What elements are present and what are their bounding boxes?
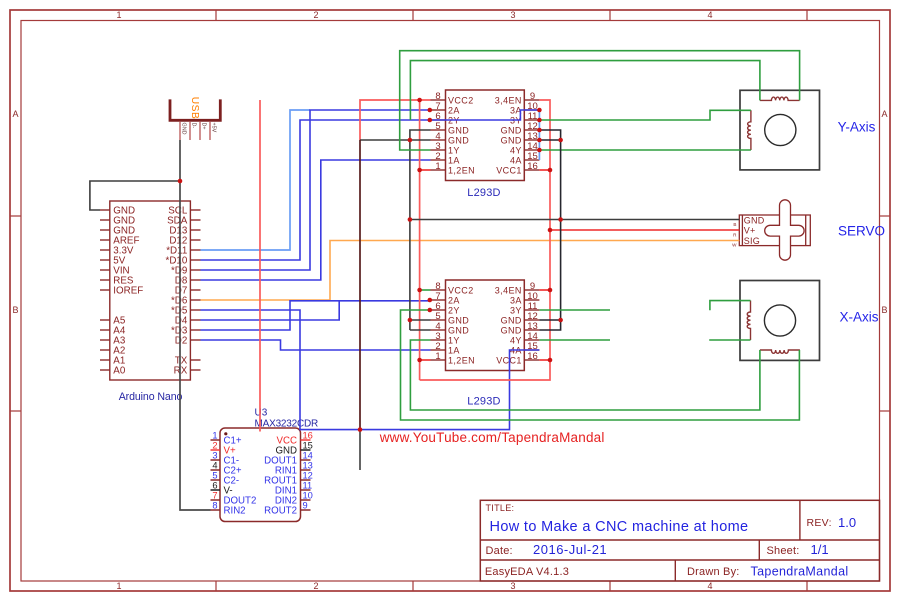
svg-text:1/1: 1/1 — [811, 542, 829, 557]
svg-text:Y-Axis: Y-Axis — [838, 120, 876, 135]
svg-text:B: B — [12, 305, 18, 315]
svg-text:GND: GND — [501, 125, 522, 135]
wire X-motor left coil bottom (green) — [709, 339, 750, 341]
svg-text:8: 8 — [212, 500, 217, 510]
svg-text:1.0: 1.0 — [838, 515, 856, 530]
svg-text:2Y: 2Y — [448, 305, 460, 315]
wire U1 VCC2 red — [360, 100, 431, 140]
svg-text:3Y: 3Y — [510, 305, 522, 315]
wire dark maroon net — [359, 140, 361, 430]
svg-text:W: W — [732, 243, 737, 248]
wire U2 2Y to X-motor coil (green) — [401, 310, 800, 420]
junction USB GND — [178, 179, 183, 184]
svg-text:1,2EN: 1,2EN — [448, 355, 475, 365]
svg-text:3: 3 — [510, 581, 515, 591]
wire U2 VCC1 link — [539, 359, 550, 361]
wire SERVO V+ (red) — [550, 229, 739, 231]
svg-text:A0: A0 — [113, 365, 126, 376]
svg-text:B: B — [733, 222, 736, 227]
wire D10 to U1 2Y/3A — [201, 110, 540, 260]
wire U1 GND pin13 link — [539, 139, 560, 141]
svg-text:VCC2: VCC2 — [448, 285, 474, 295]
svg-text:12: 12 — [303, 470, 313, 480]
svg-text:2A: 2A — [448, 295, 460, 305]
wire U2 GND pin12 link — [539, 319, 560, 321]
svg-text:VCC2: VCC2 — [448, 95, 474, 105]
svg-text:SERVO: SERVO — [838, 224, 885, 239]
svg-text:7: 7 — [212, 490, 217, 500]
svg-text:1: 1 — [435, 351, 440, 362]
svg-text:D2: D2 — [175, 335, 188, 346]
svg-text:U3: U3 — [255, 408, 268, 419]
svg-text:6: 6 — [212, 480, 217, 490]
svg-text:Arduino Nano: Arduino Nano — [119, 391, 183, 403]
wire D2 to U2 1A — [201, 340, 431, 350]
junction dots — [358, 98, 563, 432]
svg-text:3: 3 — [510, 10, 515, 20]
svg-text:4: 4 — [707, 10, 712, 20]
svg-text:ROUT2: ROUT2 — [264, 506, 297, 517]
svg-text:SIG: SIG — [744, 236, 760, 246]
wire U1 1,2EN stub link — [420, 169, 431, 171]
wire GND branch to Arduino pin GND — [90, 181, 180, 210]
svg-text:1: 1 — [116, 581, 121, 591]
wire X-motor left coil top (green) — [710, 301, 751, 311]
label Y-Axis — [838, 120, 876, 135]
svg-text:A: A — [12, 109, 18, 119]
label SERVO — [838, 224, 885, 239]
wire D3 to U2 2A — [201, 301, 431, 330]
svg-text:IOREF: IOREF — [113, 285, 143, 296]
svg-text:MAX3232CDR: MAX3232CDR — [255, 419, 319, 430]
svg-text:10: 10 — [303, 490, 313, 500]
svg-text:Drawn By:: Drawn By: — [687, 566, 740, 578]
svg-text:14: 14 — [303, 450, 313, 460]
svg-text:1: 1 — [116, 10, 121, 20]
svg-text:GND: GND — [501, 325, 522, 335]
svg-text:5: 5 — [212, 470, 217, 480]
svg-text:L293D: L293D — [467, 396, 500, 408]
IC U2 L293D (X-axis driver) — [431, 280, 540, 408]
wire U1 2Y to Y-motor coil (green) — [410, 61, 760, 120]
svg-text:X-Axis: X-Axis — [839, 310, 878, 325]
wire GND to U3 RIN2 — [180, 181, 211, 510]
svg-text:9: 9 — [303, 500, 308, 510]
svg-text:3: 3 — [212, 450, 217, 460]
svg-text:4: 4 — [707, 581, 712, 591]
wire U2 1Y to X-motor coil (green) — [410, 340, 760, 410]
svg-text:2: 2 — [313, 581, 318, 591]
wire U1 3A-4A column (light blue) — [538, 110, 540, 160]
svg-text:Date:: Date: — [486, 545, 513, 557]
wire U1 4Y to Y-motor left coil (green) — [539, 149, 751, 151]
svg-text:1: 1 — [212, 430, 217, 440]
svg-text:2A: 2A — [448, 105, 460, 115]
svg-text:2: 2 — [212, 440, 217, 450]
wire red net to U3 — [259, 100, 261, 432]
wire D11 (light blue) — [201, 110, 311, 250]
svg-text:USB: USB — [189, 97, 200, 119]
wire U2 1,2EN stub link — [420, 359, 431, 361]
wire U2 GND pin4 link — [410, 329, 431, 331]
label youtube text — [379, 430, 605, 445]
svg-text:1,2EN: 1,2EN — [448, 165, 475, 175]
wire GND chain U1 pins 12,13 — [539, 130, 560, 330]
svg-text:VCC1: VCC1 — [496, 165, 522, 175]
svg-text:B: B — [881, 305, 887, 315]
svg-text:A: A — [881, 109, 887, 119]
svg-text:3,4EN: 3,4EN — [495, 95, 522, 105]
svg-text:GND: GND — [448, 325, 469, 335]
motor M1 Y-axis stepper — [740, 90, 820, 170]
wire D8 to U1 1A — [201, 160, 431, 280]
wire U1 VCC1 link — [539, 169, 550, 171]
svg-text:4Y: 4Y — [510, 145, 522, 155]
wire U1 GND pin5 — [410, 130, 431, 140]
svg-text:4: 4 — [212, 460, 217, 470]
wire U2 3Y dangling (green) — [539, 309, 610, 311]
wire D4 to U2 2A — [201, 301, 340, 320]
wire U2 VCC2 green stub link — [420, 289, 431, 291]
wire U2 GND pin5 link — [410, 319, 431, 321]
svg-text:RIN2: RIN2 — [224, 506, 246, 517]
svg-text:TITLE:: TITLE: — [486, 503, 515, 513]
IC U3 MAX3232CDR — [211, 408, 319, 522]
svg-text:GND: GND — [180, 123, 186, 135]
svg-text:GND: GND — [501, 135, 522, 145]
svg-text:1Y: 1Y — [448, 335, 460, 345]
svg-text:13: 13 — [303, 460, 313, 470]
svg-text:GND: GND — [448, 135, 469, 145]
wire D5 to U2 4A and U3 — [201, 310, 540, 430]
svg-text:1Y: 1Y — [448, 145, 460, 155]
svg-text:V+: V+ — [744, 226, 756, 236]
svg-text:L293D: L293D — [467, 187, 500, 199]
wire U1 GND pin4 row — [360, 139, 431, 141]
svg-text:How to Make a CNC machine at h: How to Make a CNC machine at home — [490, 519, 749, 535]
svg-text:16: 16 — [527, 351, 538, 362]
svg-text:+5V: +5V — [210, 123, 216, 133]
wire gray stub below junction — [359, 430, 361, 470]
svg-text:4A: 4A — [510, 155, 522, 165]
IC U1 L293D (Y-axis driver) — [431, 90, 540, 199]
svg-text:16: 16 — [527, 161, 538, 172]
wire U2 4Y dangling (green) — [539, 339, 610, 341]
wire D6 to SERVO SIG (orange) — [201, 241, 740, 301]
svg-text:3A: 3A — [510, 295, 522, 305]
svg-text:11: 11 — [303, 480, 313, 490]
svg-text:GND: GND — [448, 125, 469, 135]
connector USB — [170, 97, 220, 140]
svg-text:2016-Jul-21: 2016-Jul-21 — [533, 542, 607, 557]
svg-text:GND: GND — [501, 315, 522, 325]
svg-text:15: 15 — [303, 440, 313, 450]
wire U1 1Y to Y-motor coil (green) — [400, 51, 800, 150]
svg-text:GND: GND — [744, 215, 765, 225]
svg-text:D-: D- — [190, 123, 196, 129]
svg-text:2: 2 — [313, 10, 318, 20]
wire red enable column — [419, 100, 421, 380]
svg-text:TapendraMandal: TapendraMandal — [751, 565, 849, 579]
svg-text:D+: D+ — [200, 123, 206, 130]
wire red bus bottom — [420, 100, 550, 380]
svg-text:3,4EN: 3,4EN — [495, 285, 522, 295]
wire GND column to U2 — [409, 140, 411, 330]
svg-text:GND: GND — [448, 315, 469, 325]
wire U1 3Y to Y-motor left coil (green) — [539, 110, 751, 120]
wire SERVO GND (black) — [410, 219, 739, 221]
wire D9 to U1 2A — [201, 110, 431, 270]
motor M2 X-axis stepper — [740, 281, 820, 361]
label X-Axis — [839, 310, 878, 325]
svg-text:4Y: 4Y — [510, 335, 522, 345]
svg-text:16: 16 — [303, 430, 313, 440]
connector SERVO — [732, 200, 810, 260]
wire U2 3,4EN link — [539, 289, 550, 291]
svg-text:1: 1 — [435, 161, 440, 172]
svg-text:EasyEDA V4.1.3: EasyEDA V4.1.3 — [485, 566, 569, 578]
IC Arduino Nano — [100, 201, 201, 403]
svg-text:1A: 1A — [448, 345, 460, 355]
svg-text:www.YouTube.com/TapendraMandal: www.YouTube.com/TapendraMandal — [379, 430, 605, 445]
svg-text:REV:: REV: — [807, 517, 832, 529]
svg-text:Sheet:: Sheet: — [767, 545, 800, 557]
title block — [480, 500, 879, 581]
svg-text:1A: 1A — [448, 155, 460, 165]
wire USB GND down — [179, 140, 181, 181]
